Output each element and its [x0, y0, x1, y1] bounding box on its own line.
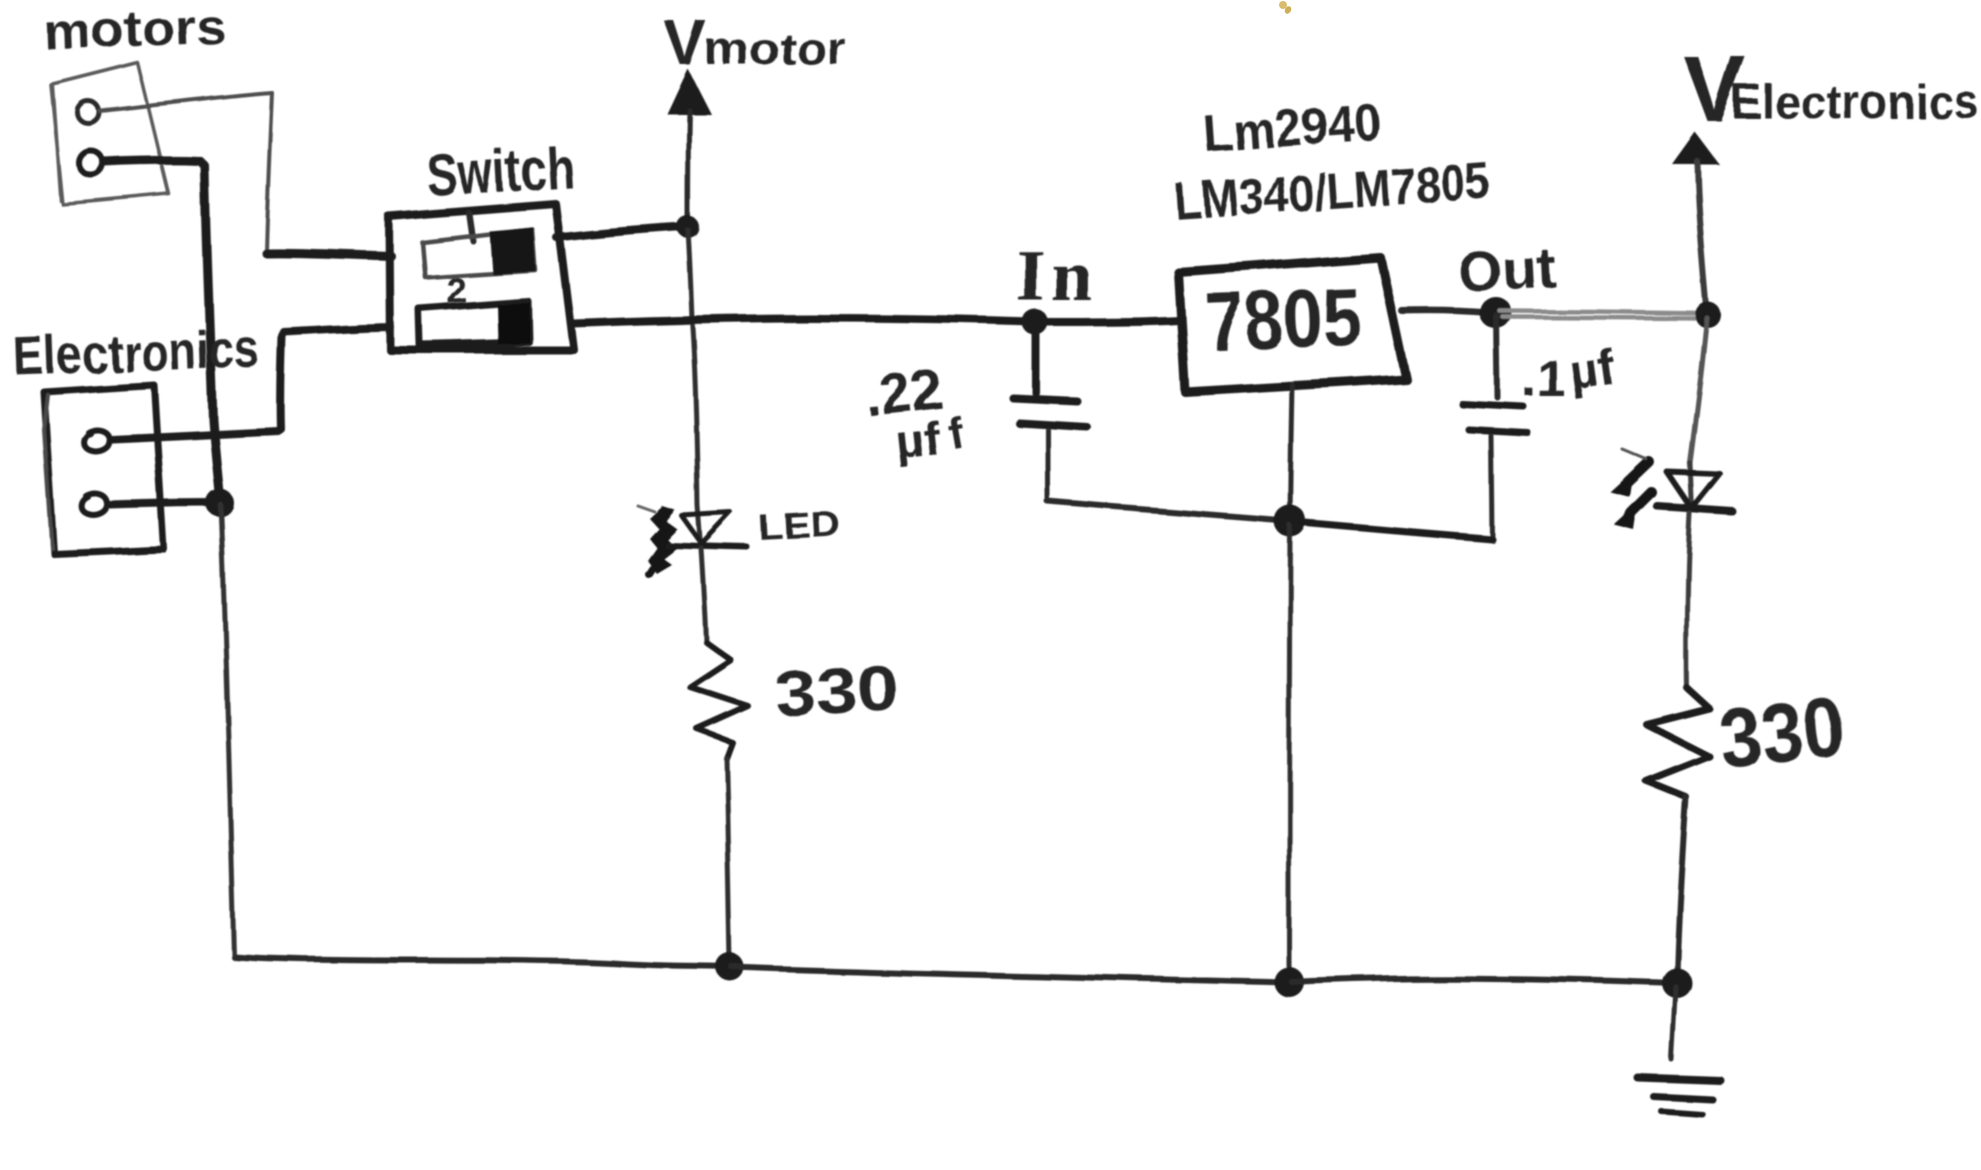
svg-text:Switch: Switch [425, 134, 576, 209]
resistor R2 zigzag [1646, 688, 1709, 797]
wire Vmotor node down to LED D1 [688, 230, 698, 506]
main rail switch out2 to In node [574, 319, 1032, 324]
svg-text:LM340/LM7805: LM340/LM7805 [1173, 152, 1492, 232]
svg-text:Electronics: Electronics [12, 318, 260, 387]
capacitor C2 top plate [1462, 404, 1524, 407]
bottom rail left segment [234, 957, 727, 967]
wire R1 down to bottom rail [726, 758, 730, 963]
wire junction to ground symbol [1672, 987, 1676, 1060]
switch S1 outer box [389, 204, 574, 350]
LED D2 triangle [1690, 463, 1692, 510]
switch bottom slot knob (filled) [497, 302, 530, 344]
junction dot VElectronics [1695, 302, 1721, 328]
svg-text:motor: motor [704, 22, 846, 74]
LED D2 light arrows [1628, 462, 1652, 514]
regulator U1 7805 box [1178, 257, 1406, 392]
svg-text:motors: motors [42, 0, 226, 60]
wire ground node down to bottom rail [1289, 525, 1290, 978]
switch bottom slot outline [419, 301, 529, 345]
wire switch out1 to Vmotor node [557, 227, 685, 238]
LED D2 cathode bar [1658, 507, 1733, 512]
svg-text:Out: Out [1455, 235, 1556, 303]
LED D1 cathode bar [667, 545, 747, 547]
connector J2 pin 2 [82, 494, 107, 515]
svg-text:µf: µf [893, 412, 943, 469]
junction dot regulator ground [1274, 505, 1306, 537]
junction dot Out [1480, 297, 1512, 329]
svg-text:Lm2940: Lm2940 [1202, 94, 1384, 164]
connector J2 Electronics box [44, 385, 164, 554]
svg-text:f: f [943, 407, 966, 458]
wire J2 pin2 to junction [110, 503, 212, 505]
svg-text:Electronics: Electronics [1731, 76, 1979, 129]
bottom rail right segment [1292, 978, 1674, 983]
wire regulator out to Out node [1402, 311, 1490, 313]
junction dot ground [1662, 968, 1692, 998]
capacitor C2 stem from Out [1497, 316, 1498, 398]
wire motors pin2 down (thick) [104, 160, 220, 500]
power symbol VElectronics arrow [1672, 132, 1719, 164]
junction dot Vmotor [677, 216, 699, 238]
connector J1 pin 2 [79, 151, 103, 175]
LED D1 triangle [698, 506, 701, 546]
wire C2 to ground node [1294, 522, 1492, 539]
LED D1 light arrows [647, 506, 677, 573]
svg-text:LED: LED [757, 503, 841, 548]
wire LED D2 to resistor R2 [1687, 514, 1690, 688]
wire Out node to VElectronics node (light) [1500, 311, 1704, 318]
svg-text:7805: 7805 [1203, 272, 1362, 368]
wire junction A down to bottom rail [221, 505, 234, 956]
capacitor C1 lower stem [1046, 430, 1051, 500]
stray yellow mark [1279, 1, 1293, 15]
connector J2 pin 1 [84, 430, 109, 451]
svg-text:330: 330 [1714, 679, 1849, 786]
svg-text:330: 330 [773, 652, 901, 730]
wire motors pin1 to corner (thin horizontal) [100, 93, 272, 111]
wire R2 down to ground junction [1677, 797, 1686, 979]
wire to switch input 1 (thick) [266, 253, 391, 256]
resistor R1 zigzag [690, 642, 748, 758]
regulator ground pin [1290, 384, 1292, 516]
wire C1 to ground node [1048, 502, 1286, 521]
junction dot In [1022, 309, 1048, 335]
junction dot bottom rail / regulator ground [1274, 967, 1304, 997]
junction dot A (electronics gnd) [206, 489, 234, 517]
svg-text:In: In [1016, 235, 1098, 317]
wire VElectronics node down to LED D2 [1690, 318, 1707, 463]
svg-text:.1: .1 [1522, 350, 1565, 408]
junction dot bottom rail / R1 [716, 953, 744, 981]
ground symbol [1638, 1078, 1721, 1081]
capacitor C1 top plate [1013, 398, 1077, 401]
capacitor C2 bottom plate [1469, 430, 1528, 433]
wire corner down (thin vertical) [266, 93, 272, 252]
switch position-1 tick [469, 213, 473, 241]
svg-text:µf: µf [1566, 339, 1619, 401]
wire In node to regulator [1038, 320, 1179, 322]
connector J1 pin 1 [77, 101, 99, 123]
switch top slot outline [422, 229, 535, 277]
capacitor C1 bottom plate [1019, 423, 1087, 427]
connector J1 motors box [50, 62, 169, 204]
bottom rail middle segment [732, 967, 1286, 982]
switch top slot knob (filled) [489, 227, 536, 274]
wire J2 pin1 right-up to switch input 2 [112, 327, 390, 439]
svg-text:V: V [664, 7, 707, 79]
power symbol Vmotor arrow [667, 69, 711, 114]
wire LED D1 to resistor R1 [701, 548, 706, 642]
capacitor C2 lower stem [1491, 436, 1492, 537]
capacitor C1 stem from In [1032, 325, 1040, 393]
